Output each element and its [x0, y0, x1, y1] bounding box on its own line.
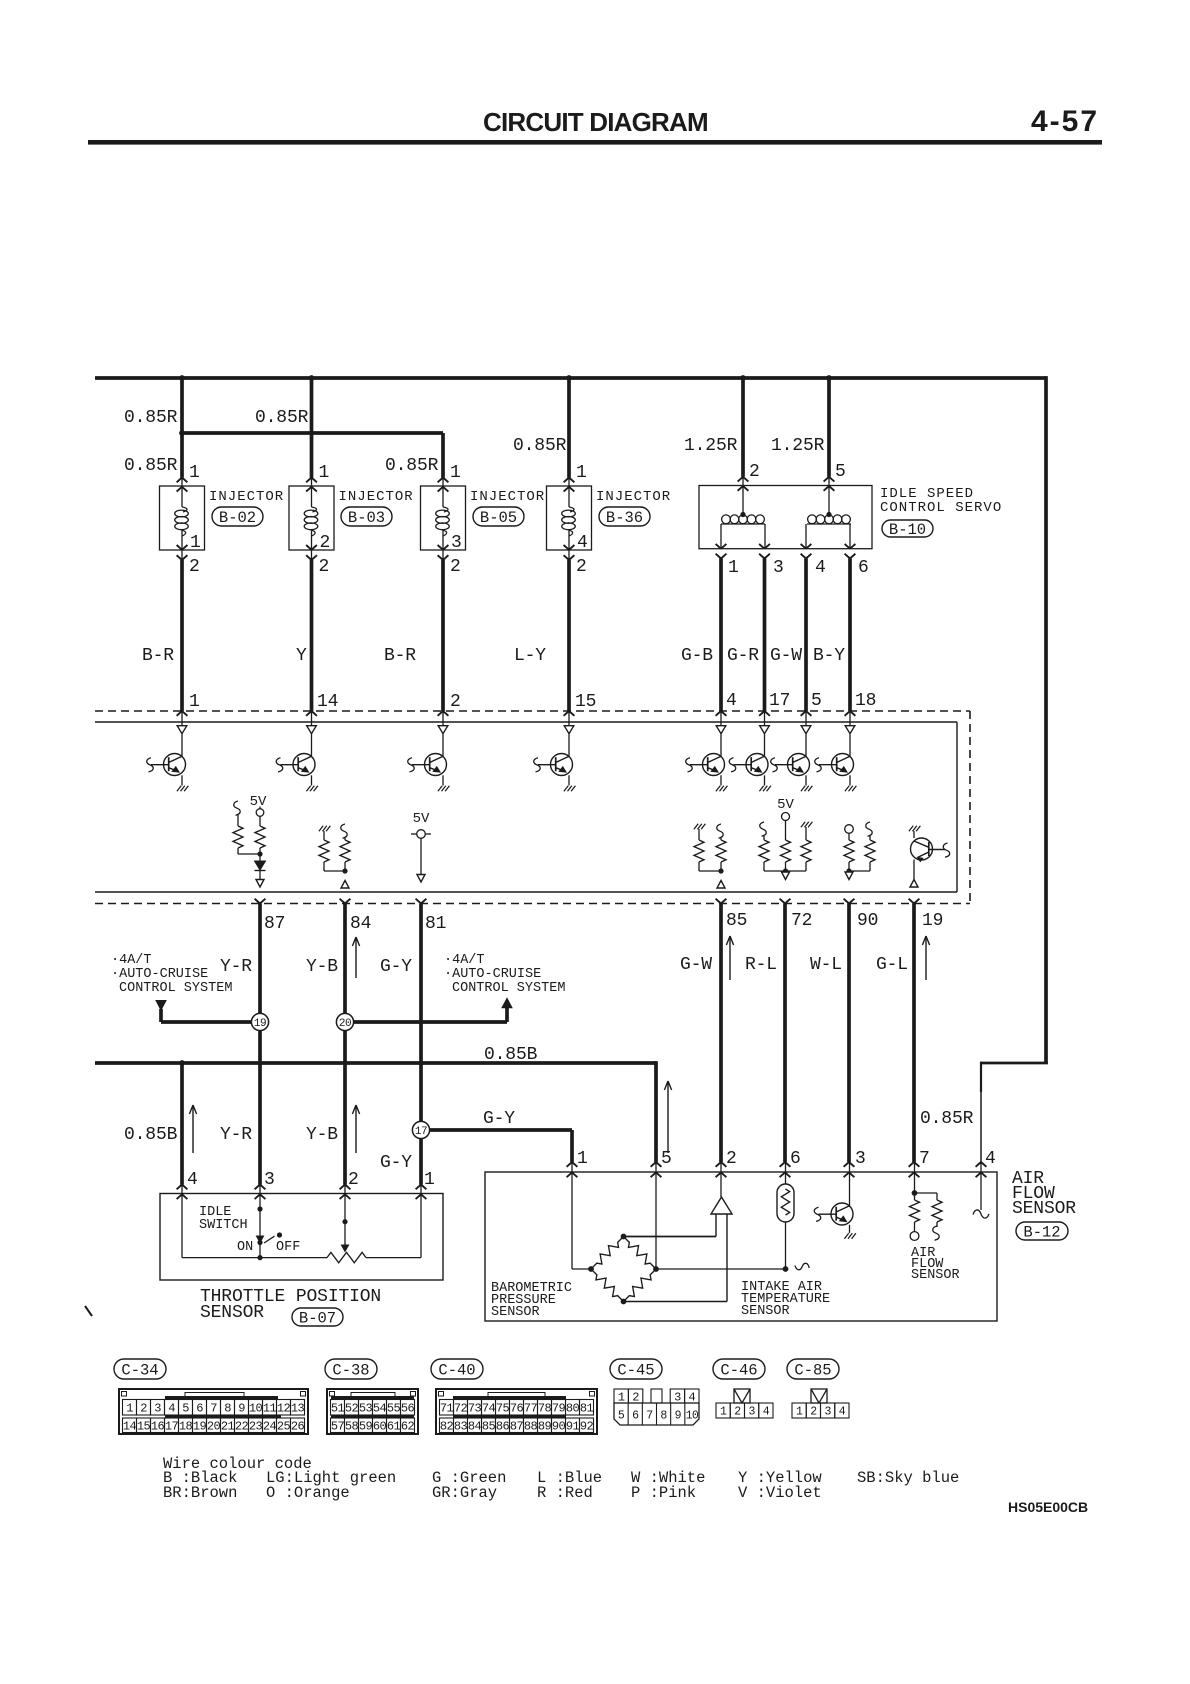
svg-text:SENSOR: SENSOR — [741, 1304, 790, 1319]
svg-text:1: 1 — [796, 1406, 803, 1419]
svg-text:25: 25 — [277, 1420, 291, 1434]
svg-text:4: 4 — [815, 558, 826, 578]
svg-text:1: 1 — [618, 1390, 625, 1404]
svg-text:90: 90 — [857, 911, 878, 931]
svg-text:B-07: B-07 — [299, 1310, 336, 1328]
svg-text:5: 5 — [835, 462, 846, 482]
svg-text:1: 1 — [189, 463, 200, 483]
svg-text:B-R: B-R — [384, 646, 416, 666]
svg-text:Y-B: Y-B — [306, 1125, 338, 1145]
svg-text:SB:Sky blue: SB:Sky blue — [857, 1469, 959, 1487]
svg-text:21: 21 — [221, 1420, 235, 1434]
svg-text:4: 4 — [187, 1170, 198, 1190]
svg-text:55: 55 — [387, 1402, 401, 1416]
svg-text:G-L: G-L — [876, 955, 908, 975]
svg-text:C-46: C-46 — [720, 1362, 757, 1380]
svg-text:1: 1 — [720, 1406, 727, 1419]
svg-text:INJECTOR: INJECTOR — [209, 489, 284, 505]
svg-text:1: 1 — [190, 533, 201, 553]
svg-text:71: 71 — [440, 1402, 454, 1416]
svg-text:0.85R: 0.85R — [124, 408, 178, 428]
svg-text:C-34: C-34 — [121, 1362, 158, 1380]
svg-text:5V: 5V — [777, 797, 794, 813]
svg-text:15: 15 — [137, 1420, 151, 1434]
svg-text:B-R: B-R — [142, 646, 174, 666]
svg-text:CONTROL SYSTEM: CONTROL SYSTEM — [119, 981, 232, 996]
svg-text:Y-B: Y-B — [306, 957, 338, 977]
svg-text:OFF: OFF — [276, 1240, 300, 1255]
svg-text:2: 2 — [140, 1402, 147, 1416]
svg-text:0.85R: 0.85R — [513, 436, 567, 456]
svg-text:13: 13 — [291, 1402, 305, 1416]
svg-text:11: 11 — [263, 1402, 277, 1416]
svg-text:2: 2 — [576, 557, 587, 577]
svg-text:17: 17 — [769, 691, 790, 711]
svg-text:5V: 5V — [413, 811, 430, 827]
svg-text:16: 16 — [151, 1420, 165, 1434]
svg-text:C-85: C-85 — [794, 1362, 831, 1380]
svg-text:GR:Gray: GR:Gray — [432, 1484, 497, 1502]
svg-text:O :Orange: O :Orange — [266, 1484, 350, 1502]
svg-text:59: 59 — [359, 1420, 373, 1434]
svg-text:7: 7 — [646, 1410, 652, 1423]
svg-text:CONTROL SYSTEM: CONTROL SYSTEM — [452, 981, 565, 996]
svg-text:Y-R: Y-R — [220, 1125, 252, 1145]
svg-text:2: 2 — [319, 557, 330, 577]
svg-text:18: 18 — [179, 1420, 193, 1434]
svg-text:10: 10 — [249, 1402, 263, 1416]
svg-text:4: 4 — [577, 533, 588, 553]
svg-text:90: 90 — [552, 1420, 566, 1434]
svg-text:0.85R: 0.85R — [255, 408, 309, 428]
svg-text:·AUTO-CRUISE: ·AUTO-CRUISE — [444, 967, 541, 982]
svg-text:19: 19 — [193, 1420, 207, 1434]
svg-text:4-57: 4-57 — [1031, 105, 1099, 138]
svg-text:SENSOR: SENSOR — [1012, 1199, 1076, 1219]
svg-text:HS05E00CB: HS05E00CB — [1008, 1499, 1088, 1515]
svg-text:81: 81 — [425, 914, 446, 934]
svg-text:C-38: C-38 — [332, 1362, 369, 1380]
svg-text:54: 54 — [373, 1402, 387, 1416]
svg-text:22: 22 — [235, 1420, 249, 1434]
svg-text:2: 2 — [450, 557, 461, 577]
svg-text:7: 7 — [210, 1402, 217, 1416]
svg-text:60: 60 — [373, 1420, 387, 1434]
svg-text:19: 19 — [922, 911, 943, 931]
svg-text:85: 85 — [726, 911, 747, 931]
svg-text:20: 20 — [207, 1420, 221, 1434]
svg-text:0.85B: 0.85B — [484, 1045, 538, 1065]
svg-text:0.85R: 0.85R — [124, 456, 178, 476]
svg-text:1: 1 — [577, 1149, 588, 1169]
svg-text:57: 57 — [331, 1420, 345, 1434]
svg-text:3: 3 — [824, 1406, 831, 1419]
svg-text:87: 87 — [264, 914, 285, 934]
svg-text:G-W: G-W — [770, 646, 802, 666]
svg-text:ON: ON — [237, 1240, 253, 1255]
svg-text:17: 17 — [165, 1420, 179, 1434]
svg-text:6: 6 — [632, 1410, 639, 1423]
svg-text:9: 9 — [675, 1410, 682, 1423]
svg-text:·4A/T: ·4A/T — [111, 953, 152, 968]
svg-text:1: 1 — [576, 463, 587, 483]
svg-text:5: 5 — [618, 1410, 625, 1423]
svg-text:92: 92 — [580, 1420, 594, 1434]
svg-text:G-R: G-R — [727, 646, 759, 666]
svg-text:SENSOR: SENSOR — [911, 1268, 960, 1283]
svg-text:P :Pink: P :Pink — [631, 1484, 696, 1502]
svg-text:G-W: G-W — [680, 955, 712, 975]
svg-text:23: 23 — [249, 1420, 263, 1434]
svg-text:82: 82 — [440, 1420, 454, 1434]
svg-text:B-12: B-12 — [1023, 1224, 1060, 1242]
svg-text:78: 78 — [538, 1402, 552, 1416]
svg-text:C-45: C-45 — [617, 1362, 654, 1380]
svg-text:B-05: B-05 — [480, 509, 517, 527]
svg-text:0.85R: 0.85R — [920, 1109, 974, 1129]
svg-text:75: 75 — [496, 1402, 510, 1416]
svg-text:19: 19 — [254, 1018, 266, 1030]
svg-text:INJECTOR: INJECTOR — [339, 489, 414, 505]
svg-text:1: 1 — [126, 1402, 133, 1416]
svg-text:1: 1 — [728, 558, 739, 578]
svg-text:2: 2 — [632, 1390, 639, 1404]
svg-text:3: 3 — [748, 1406, 755, 1419]
svg-text:4: 4 — [688, 1390, 695, 1404]
svg-text:79: 79 — [552, 1402, 566, 1416]
svg-text:87: 87 — [510, 1420, 524, 1434]
svg-text:8: 8 — [224, 1402, 231, 1416]
svg-text:G-Y: G-Y — [380, 1153, 412, 1173]
svg-text:17: 17 — [415, 1126, 427, 1138]
svg-text:1: 1 — [424, 1170, 435, 1190]
svg-text:1: 1 — [319, 463, 330, 483]
svg-text:7: 7 — [919, 1149, 930, 1169]
svg-text:2: 2 — [320, 533, 331, 553]
svg-text:2: 2 — [810, 1406, 817, 1419]
svg-text:6: 6 — [858, 558, 869, 578]
svg-text:8: 8 — [660, 1410, 667, 1423]
svg-text:Y-R: Y-R — [220, 957, 252, 977]
svg-text:2: 2 — [749, 462, 760, 482]
svg-text:B-Y: B-Y — [813, 646, 845, 666]
svg-text:14: 14 — [123, 1420, 137, 1434]
svg-text:84: 84 — [468, 1420, 482, 1434]
svg-text:B-03: B-03 — [348, 509, 385, 527]
svg-text:74: 74 — [482, 1402, 496, 1416]
svg-text:6: 6 — [790, 1149, 801, 1169]
svg-text:CONTROL SERVO: CONTROL SERVO — [880, 500, 1002, 516]
svg-text:85: 85 — [482, 1420, 496, 1434]
svg-text:BR:Brown: BR:Brown — [163, 1484, 237, 1502]
svg-text:89: 89 — [538, 1420, 552, 1434]
svg-text:5V: 5V — [250, 794, 267, 810]
svg-text:SENSOR: SENSOR — [491, 1305, 540, 1320]
svg-text:INJECTOR: INJECTOR — [596, 489, 671, 505]
svg-text:R :Red: R :Red — [537, 1484, 593, 1502]
svg-text:B-02: B-02 — [219, 509, 256, 527]
svg-text:72: 72 — [791, 911, 812, 931]
svg-text:W-L: W-L — [810, 955, 842, 975]
svg-text:84: 84 — [350, 914, 371, 934]
svg-text:SWITCH: SWITCH — [199, 1218, 248, 1233]
svg-text:51: 51 — [331, 1402, 345, 1416]
svg-text:20: 20 — [339, 1018, 351, 1030]
svg-text:15: 15 — [575, 692, 596, 712]
svg-text:3: 3 — [264, 1170, 275, 1190]
svg-text:1: 1 — [450, 463, 461, 483]
svg-text:77: 77 — [524, 1402, 538, 1416]
svg-text:B-36: B-36 — [606, 509, 643, 527]
svg-text:2: 2 — [734, 1406, 741, 1419]
svg-text:86: 86 — [496, 1420, 510, 1434]
svg-text:2: 2 — [726, 1149, 737, 1169]
svg-text:1: 1 — [189, 692, 200, 712]
svg-text:1.25R: 1.25R — [684, 436, 738, 456]
svg-text:24: 24 — [263, 1420, 277, 1434]
svg-text:G-B: G-B — [681, 646, 713, 666]
svg-text:0.85B: 0.85B — [124, 1125, 178, 1145]
svg-text:SENSOR: SENSOR — [200, 1303, 264, 1323]
svg-text:56: 56 — [401, 1402, 415, 1416]
svg-text:73: 73 — [468, 1402, 482, 1416]
svg-text:B-10: B-10 — [889, 521, 926, 539]
svg-text:58: 58 — [345, 1420, 359, 1434]
svg-text:83: 83 — [454, 1420, 468, 1434]
svg-text:72: 72 — [454, 1402, 468, 1416]
svg-text:1.25R: 1.25R — [771, 436, 825, 456]
svg-text:53: 53 — [359, 1402, 373, 1416]
svg-text:5: 5 — [811, 691, 822, 711]
svg-text:R-L: R-L — [745, 955, 777, 975]
svg-text:CIRCUIT DIAGRAM: CIRCUIT DIAGRAM — [483, 107, 708, 137]
svg-text:G-Y: G-Y — [483, 1109, 515, 1129]
svg-text:6: 6 — [196, 1402, 203, 1416]
svg-text:3: 3 — [674, 1390, 681, 1404]
svg-text:2: 2 — [450, 692, 461, 712]
svg-text:81: 81 — [580, 1402, 594, 1416]
svg-text:Y: Y — [296, 646, 307, 666]
svg-text:62: 62 — [401, 1420, 415, 1434]
svg-text:2: 2 — [348, 1170, 359, 1190]
svg-text:9: 9 — [238, 1402, 245, 1416]
svg-text:18: 18 — [855, 691, 876, 711]
svg-text:INJECTOR: INJECTOR — [470, 489, 545, 505]
svg-text:4: 4 — [763, 1406, 770, 1419]
svg-text:80: 80 — [566, 1402, 580, 1416]
svg-text:4: 4 — [839, 1406, 846, 1419]
svg-text:·4A/T: ·4A/T — [444, 953, 485, 968]
svg-text:10: 10 — [686, 1410, 699, 1423]
svg-text:3: 3 — [855, 1149, 866, 1169]
svg-text:12: 12 — [277, 1402, 291, 1416]
svg-text:5: 5 — [182, 1402, 189, 1416]
svg-text:·AUTO-CRUISE: ·AUTO-CRUISE — [111, 967, 208, 982]
svg-text:4: 4 — [168, 1402, 175, 1416]
svg-text:52: 52 — [345, 1402, 359, 1416]
svg-text:3: 3 — [451, 533, 462, 553]
svg-text:26: 26 — [291, 1420, 305, 1434]
svg-text:5: 5 — [661, 1149, 672, 1169]
svg-text:76: 76 — [510, 1402, 524, 1416]
svg-text:3: 3 — [154, 1402, 161, 1416]
svg-text:4: 4 — [726, 691, 737, 711]
svg-text:61: 61 — [387, 1420, 401, 1434]
svg-text:2: 2 — [189, 557, 200, 577]
svg-text:88: 88 — [524, 1420, 538, 1434]
svg-text:L-Y: L-Y — [514, 646, 546, 666]
svg-text:G-Y: G-Y — [380, 957, 412, 977]
svg-text:C-40: C-40 — [438, 1362, 475, 1380]
svg-text:3: 3 — [773, 558, 784, 578]
svg-text:V :Violet: V :Violet — [738, 1484, 822, 1502]
svg-text:91: 91 — [566, 1420, 580, 1434]
svg-text:14: 14 — [317, 692, 338, 712]
svg-text:0.85R: 0.85R — [385, 456, 439, 476]
